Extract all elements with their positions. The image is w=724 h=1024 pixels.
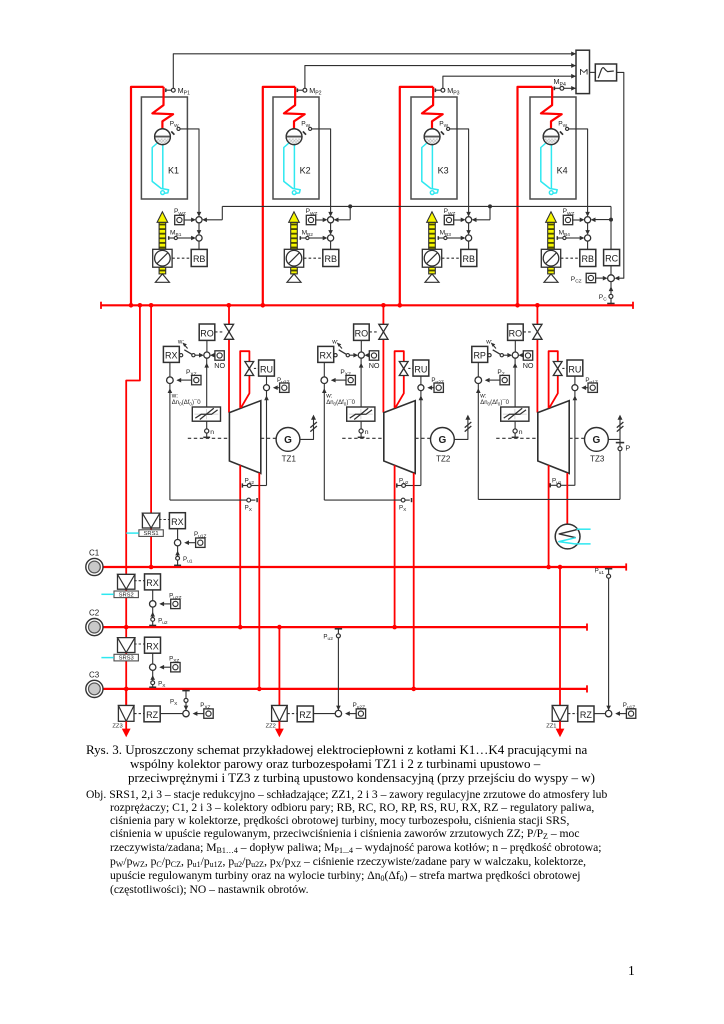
- fuel control valve of K2: [284, 249, 303, 267]
- cooling water stub of SRS3: [101, 657, 113, 659]
- relief valve ZZ1: [552, 706, 568, 722]
- regulator RZ of ZZ3: [144, 706, 160, 722]
- page number: [628, 963, 635, 979]
- svg-text:C1: C1: [89, 549, 100, 558]
- svg-text:RO: RO: [200, 328, 214, 338]
- wire: governor feedback into junction of TZ2: [322, 388, 327, 393]
- regulator RX of TZ1: [163, 346, 179, 362]
- sensor n (speed) of TZ3: [514, 421, 516, 429]
- node Mp2 measurement (steam output of K2): [296, 88, 298, 92]
- burner cone of K3: [425, 274, 439, 282]
- summing junction 2 of K1 (fuel flow): [198, 223, 200, 234]
- wire: MP2 signal to sum block: [305, 66, 576, 89]
- summing junction 1 of K3 (drum pressure control): [466, 212, 471, 217]
- sensor pX feedback of SRS3: [150, 675, 155, 680]
- regulator RX of TZ2: [318, 346, 334, 362]
- relief valve ZZ2: [272, 706, 288, 722]
- boiler K4 downcomer circulation loop: [541, 142, 557, 194]
- boiler K4 box: [530, 97, 576, 199]
- svg-text:n: n: [519, 429, 523, 436]
- node on bus x=131: [129, 303, 134, 308]
- caption Rys. 3: [86, 743, 646, 786]
- reduction-cooling station SRS2 valve: [118, 574, 135, 589]
- svg-text:SRS1: SRS1: [144, 531, 159, 537]
- wire: MP1 signal to sum block: [173, 54, 575, 89]
- wire: blowoff arrow of ZZ1 (red): [559, 721, 561, 731]
- wire: RO to governor valve of TZ3 (dashed): [523, 331, 532, 333]
- wire: Pcz to RC junction: [596, 277, 605, 279]
- svg-text:RX: RX: [146, 641, 159, 651]
- speed governor block of TZ3: [514, 358, 516, 407]
- node on C2 at x=240: [238, 625, 243, 630]
- wire: main steam line from bus to turbine TZ2: [382, 305, 384, 412]
- wire: main steam line from bus to turbine TZ1: [228, 305, 230, 412]
- burner cone of K2: [287, 274, 301, 282]
- wire: RC output riser: [610, 206, 612, 249]
- svg-text:RB: RB: [193, 254, 206, 264]
- wire: Pwz to junction of K2: [316, 219, 323, 221]
- regulator RX of SRS3: [145, 637, 161, 653]
- svg-text:n: n: [210, 429, 214, 436]
- node on C2 at x=395: [392, 625, 397, 630]
- sensor n (speed) of TZ1: [206, 421, 208, 429]
- pressure tap feedback of ZZ1: [608, 568, 610, 710]
- extraction control valve of TZ3: [553, 362, 562, 369]
- fuel control valve of K1: [153, 249, 172, 267]
- generator G of TZ1: [276, 428, 300, 452]
- sensor P (power) of TZ3: [619, 439, 621, 499]
- speed governor block of TZ2: [360, 358, 362, 407]
- arrow into sum block from K1: [571, 52, 576, 57]
- wire: RO to governor valve of TZ1 (dashed): [215, 331, 224, 333]
- wire: extraction loop of TZ2 (red): [395, 351, 404, 408]
- wire: exhaust line of TZ2: [413, 473, 415, 689]
- wire: RB output to fuel valve of K2 (dashed): [304, 257, 323, 259]
- boiler K1 superheater zigzag: [152, 87, 173, 129]
- wire: Pw signal of K4 to summing junction: [569, 129, 588, 213]
- regulator RU of TZ2 (extraction pressure): [413, 360, 429, 376]
- regulator RX of SRS2: [145, 574, 161, 590]
- filter block (transfer function): [595, 64, 616, 81]
- junction of SRS3: [152, 653, 154, 664]
- svg-text:Δn0(Δf0)¯0: Δn0(Δf0)¯0: [480, 399, 509, 406]
- turbine TZ2 body: [384, 401, 415, 474]
- node Mp3 measurement (steam output of K3): [434, 88, 436, 92]
- reduction-cooling station SRS1 valve: [142, 513, 159, 528]
- speed summing junction of TZ1: [204, 352, 210, 358]
- svg-text:K3: K3: [438, 165, 449, 175]
- wire: red steam riser of boiler K3 (bus to superheater): [400, 87, 433, 305]
- wire: MB3 to junction 2 of K3: [447, 237, 461, 239]
- wire: RX to SRS3 valve (dashed): [134, 643, 144, 645]
- wire: NO junction to RO of TZ1: [206, 340, 208, 352]
- summing junction 2 of K3 (fuel flow): [468, 223, 470, 234]
- main steam collector bus (red): [101, 304, 633, 306]
- fuel flow arrow of K2: [291, 222, 298, 249]
- cooling water stub of SRS2: [101, 593, 113, 595]
- svg-text:C2: C2: [89, 609, 100, 618]
- wire: Pwz to junction of K3: [454, 219, 461, 221]
- pressure tap feedback of ZZ3: [185, 690, 187, 711]
- sensor px of TZ2 (backpressure): [324, 499, 401, 501]
- wire: blowoff arrow of ZZ2 (red): [278, 721, 280, 731]
- summing junction 2 of K2 (fuel flow): [330, 223, 332, 234]
- wire: RB output to fuel valve of K4 (dashed): [561, 257, 580, 259]
- wire: extraction line below turbine TZ3: [548, 465, 550, 567]
- wire: RX to SRS2 valve (dashed): [134, 580, 144, 582]
- svg-text:w:: w:: [325, 393, 332, 400]
- wire: pu2 feedback of TZ2: [419, 395, 424, 400]
- svg-text:TZ3: TZ3: [590, 455, 605, 464]
- sum block (steam output of K1..K4): [576, 50, 590, 93]
- regulator RO of TZ2 (speed): [354, 324, 370, 340]
- collector C3 header (red): [103, 688, 587, 690]
- svg-text:TZ2: TZ2: [436, 455, 451, 464]
- boiler K2 superheater zigzag: [284, 87, 305, 129]
- summing junction 2 of K4 (fuel flow): [587, 223, 589, 234]
- svg-text:RX: RX: [319, 351, 332, 361]
- svg-text:RU: RU: [260, 364, 273, 374]
- wire: Pw signal of K3 to summing junction: [450, 129, 469, 213]
- junction of ZZ2: [314, 713, 336, 715]
- wire: sum block to filter block: [590, 71, 596, 73]
- node on C3 at x=259: [257, 687, 262, 692]
- svg-text:G: G: [284, 435, 292, 446]
- wire: MP4 signal to sum block: [564, 87, 576, 89]
- wire: RB output to fuel valve of K3 (dashed): [442, 257, 461, 259]
- svg-text:RX: RX: [146, 578, 159, 588]
- svg-text:TZ1: TZ1: [282, 455, 297, 464]
- boiler K2 downcomer circulation loop: [284, 142, 300, 194]
- wire: blowoff arrow of ZZ3 (red): [125, 721, 127, 731]
- legend Obj.: [86, 788, 706, 896]
- svg-text:RB: RB: [463, 254, 476, 264]
- wire: relief pipe of ZZ1 (red): [559, 567, 561, 706]
- junction of ZZ1: [594, 713, 605, 715]
- turbine TZ1 body: [229, 401, 260, 474]
- speed summing junction of TZ3: [512, 352, 518, 358]
- collector C1 header (red): [103, 566, 626, 568]
- condenser of TZ3: [555, 524, 580, 549]
- svg-text:RC: RC: [605, 254, 618, 264]
- wire: RC correction line to all boiler junctions: [222, 205, 611, 207]
- svg-text:RZ: RZ: [580, 710, 592, 720]
- node Mp1 measurement (steam output of K1): [165, 88, 167, 92]
- setpoint junction of TZ3: [475, 377, 482, 384]
- wire: red pipe from bus to SRS2/SRS3/ZZ3 (with jog): [126, 305, 140, 705]
- svg-text:Δn0(Δf0)¯0: Δn0(Δf0)¯0: [326, 399, 355, 406]
- wire: filter output to RC junction: [617, 72, 624, 278]
- svg-text:RX: RX: [171, 517, 184, 527]
- fuel control valve of K3: [422, 249, 441, 267]
- node on C3 at x=414: [411, 687, 416, 692]
- governor valve of TZ1: [224, 324, 233, 332]
- svg-text:RZ: RZ: [146, 710, 158, 720]
- wire: RU to extraction valve of TZ2 (dashed): [408, 367, 413, 369]
- wire: main steam line from bus to turbine TZ3: [536, 305, 538, 412]
- svg-text:RU: RU: [414, 364, 427, 374]
- fuel flow arrow of K1: [159, 222, 166, 249]
- generator G of TZ3: [585, 428, 609, 452]
- arrow into sum block from K3: [571, 74, 576, 79]
- wire: RX to SRS1 valve (dashed): [159, 519, 169, 521]
- svg-text:RU: RU: [568, 364, 581, 374]
- collector C2 header (red): [103, 626, 587, 628]
- fuel control valve of K4: [541, 249, 560, 267]
- extraction pressure junction of TZ3: [574, 376, 576, 384]
- wire: MB4 to junction 2 of K4: [566, 237, 580, 239]
- wire: power feedback of TZ3: [478, 498, 620, 500]
- svg-text:ZZ3: ZZ3: [112, 724, 122, 730]
- governor valve of TZ2: [379, 324, 388, 332]
- wire: exhaust line of TZ3: [566, 473, 568, 524]
- collector C3 symbol: [86, 680, 103, 697]
- setpoint junction of TZ2: [321, 377, 328, 384]
- svg-text:SRS3: SRS3: [119, 656, 134, 662]
- node RC output tee: [609, 218, 613, 222]
- svg-text:RB: RB: [582, 254, 595, 264]
- extraction pressure junction of TZ1: [266, 376, 268, 384]
- wire: RZ to ZZ3 valve (dashed): [134, 713, 144, 715]
- sensor pu1 feedback of SRS1: [175, 551, 180, 556]
- node on C3 at x=126: [124, 687, 129, 692]
- svg-text:SRS2: SRS2: [119, 592, 134, 598]
- wire: Pw signal of K1 to summing junction: [180, 129, 199, 213]
- node on C2 at x=279: [277, 625, 282, 630]
- wire: extraction line below turbine TZ2: [394, 465, 396, 627]
- sensor n (speed) of TZ2: [360, 421, 362, 429]
- wire: MB1 to junction 2 of K1: [177, 237, 191, 239]
- RC summing junction: [610, 266, 612, 275]
- wire: RU to extraction valve of TZ1 (dashed): [254, 367, 259, 369]
- arrow into sum block from K4: [571, 86, 576, 91]
- svg-text:G: G: [593, 435, 601, 446]
- summing junction 1 of K1 (drum pressure control): [197, 212, 202, 217]
- node on C1 at x=549: [546, 565, 551, 570]
- wire: extraction line below turbine TZ1: [239, 465, 241, 627]
- wire: RB output to fuel valve of K1 (dashed): [172, 257, 191, 259]
- wire: Pwz to junction of K4: [573, 219, 580, 221]
- speed summing junction of TZ2: [358, 352, 364, 358]
- regulator RZ of ZZ1: [578, 706, 594, 722]
- svg-text:ZZ2: ZZ2: [266, 724, 276, 730]
- node on C1 at x=560: [558, 565, 563, 570]
- power output arrow of TZ1: [300, 419, 314, 439]
- wire: NO junction to RO of TZ2: [360, 340, 362, 352]
- setpoint junction of TZ1: [167, 377, 174, 384]
- wire: extraction loop of TZ1 (red): [240, 351, 249, 408]
- power output arrow of TZ2: [454, 419, 468, 439]
- wire: pu1 feedback of TZ3: [573, 395, 578, 400]
- cooling water stub of SRS1: [126, 532, 138, 534]
- collector C2 symbol: [86, 619, 103, 636]
- svg-text:RO: RO: [509, 328, 523, 338]
- node on bus x=537: [535, 303, 540, 308]
- svg-text:P: P: [625, 444, 630, 453]
- svg-text:RB: RB: [325, 254, 338, 264]
- node on bus x=383: [381, 303, 386, 308]
- svg-text:ZZ1: ZZ1: [546, 724, 556, 730]
- power output arrow of TZ3: [608, 419, 620, 439]
- svg-text:w:: w:: [479, 393, 486, 400]
- boiler K2 box: [273, 97, 319, 199]
- wire: pu2 feedback of TZ1: [264, 395, 269, 400]
- svg-text:Δn0(Δf0)¯0: Δn0(Δf0)¯0: [172, 399, 201, 406]
- pressure tap feedback of ZZ2: [337, 628, 339, 710]
- regulator RB of K2 (fuel regulator): [330, 241, 332, 249]
- wire: RO to governor valve of TZ2 (dashed): [369, 331, 378, 333]
- node on bus x=140: [138, 303, 143, 308]
- wire: Pwz to junction of K1: [184, 219, 191, 221]
- turbine TZ3 body: [538, 401, 569, 474]
- boiler K4 superheater zigzag: [541, 87, 562, 129]
- arrow into sum block from K2: [571, 63, 576, 68]
- sensor px of TZ1 (backpressure): [170, 499, 247, 501]
- burner cone of K1: [155, 274, 169, 282]
- node on RC line above K2: [348, 204, 352, 208]
- regulator RX of SRS1: [169, 513, 185, 529]
- junction of ZZ3: [160, 713, 182, 715]
- svg-text:K2: K2: [300, 165, 311, 175]
- wire: RZ to ZZ1 valve (dashed): [568, 713, 578, 715]
- reduction-cooling station SRS3 valve: [118, 638, 135, 653]
- regulator RB of K4 (fuel regulator): [587, 241, 589, 249]
- wire: red steam riser of boiler K2 (bus to superheater): [263, 87, 295, 305]
- svg-text:K1: K1: [168, 165, 179, 175]
- wire: MB2 to junction 2 of K2: [309, 237, 323, 239]
- svg-text:NO: NO: [214, 361, 225, 370]
- wire: MP3 signal to sum block: [443, 76, 576, 88]
- svg-text:RZ: RZ: [299, 710, 311, 720]
- regulator RB of K1 (fuel regulator): [198, 241, 200, 249]
- wire: RZ to ZZ2 valve (dashed): [287, 713, 297, 715]
- node on bus x=229: [227, 303, 232, 308]
- wire: red pipe from bus to SRS1: [150, 305, 152, 567]
- node Mp4 measurement (steam output of K4): [553, 87, 555, 91]
- wire: governor feedback into junction of TZ1: [168, 388, 173, 393]
- summing junction 1 of K2 (drum pressure control): [328, 212, 333, 217]
- burner cone of K4: [544, 274, 558, 282]
- wire: exhaust line of TZ1: [258, 473, 260, 689]
- svg-text:NO: NO: [369, 361, 380, 370]
- speed setter NO of TZ3: [523, 351, 532, 360]
- wire: governor feedback into junction of TZ3: [476, 388, 481, 393]
- wire: relief pipe of ZZ3 (red): [125, 689, 127, 706]
- svg-text:NO: NO: [523, 361, 534, 370]
- node on bus x=518: [515, 303, 520, 308]
- wire: extraction loop of TZ3 (red): [549, 351, 558, 408]
- regulator RU of TZ3 (extraction pressure): [567, 360, 583, 376]
- shaft line of TZ3 (dashed): [496, 437, 537, 439]
- junction of SRS2: [152, 590, 154, 601]
- regulator RC (collector pressure): [604, 249, 620, 265]
- regulator RP of TZ3: [472, 346, 488, 362]
- shaft line of TZ2 (dashed): [342, 437, 383, 439]
- wire: red steam riser of boiler K4 (bus to superheater): [518, 87, 553, 305]
- speed governor block of TZ1: [206, 358, 208, 407]
- svg-text:G: G: [439, 435, 447, 446]
- svg-text:w:: w:: [171, 393, 178, 400]
- regulator RU of TZ1 (extraction pressure): [259, 360, 275, 376]
- boiler K3 downcomer circulation loop: [422, 142, 438, 194]
- wire: relief pipe of ZZ2 (red): [278, 627, 280, 705]
- shaft line of TZ1 (dashed): [188, 437, 229, 439]
- generator G of TZ2: [431, 428, 455, 452]
- boiler K1 downcomer circulation loop: [152, 142, 168, 194]
- svg-text:Σ: Σ: [577, 68, 589, 75]
- boiler K3 box: [411, 97, 457, 199]
- node on C2 at x=126: [124, 625, 129, 630]
- wire: RU to extraction valve of TZ3 (dashed): [562, 367, 567, 369]
- speed setter NO of TZ1: [215, 351, 224, 360]
- svg-text:C3: C3: [89, 670, 100, 679]
- regulator RB of K3 (fuel regulator): [468, 241, 470, 249]
- node on bus x=263: [261, 303, 266, 308]
- svg-text:RP: RP: [473, 351, 486, 361]
- cooling water lines of condenser: [577, 528, 591, 530]
- svg-text:RO: RO: [355, 328, 369, 338]
- node on C1 at x=151: [149, 565, 154, 570]
- summing junction 1 of K4 (drum pressure control): [585, 212, 590, 217]
- svg-text:n: n: [365, 429, 369, 436]
- extraction control valve of TZ1: [245, 362, 254, 369]
- regulator RZ of ZZ2: [297, 706, 313, 722]
- boiler K1 box: [141, 97, 187, 199]
- sensor pu2 feedback of SRS2: [150, 612, 155, 617]
- relief valve ZZ3: [118, 706, 134, 722]
- wire: NO junction to RO of TZ3: [514, 340, 516, 352]
- node on bus x=151: [149, 303, 154, 308]
- fuel flow arrow of K3: [429, 222, 436, 249]
- svg-text:RX: RX: [165, 351, 178, 361]
- speed setter NO of TZ2: [369, 351, 378, 360]
- svg-text:K4: K4: [557, 165, 568, 175]
- regulator RO of TZ1 (speed): [199, 324, 215, 340]
- node on RC line above K3: [488, 204, 492, 208]
- wire: Pw signal of K2 to summing junction: [312, 129, 331, 213]
- fuel flow arrow of K4: [548, 222, 555, 249]
- extraction control valve of TZ2: [399, 362, 408, 369]
- regulator RO of TZ3 (speed): [508, 324, 524, 340]
- wire: red steam riser of boiler K1 (bus to superheater): [131, 87, 164, 305]
- boiler K3 superheater zigzag: [422, 87, 443, 129]
- collector C1 symbol: [86, 558, 103, 575]
- governor valve of TZ3: [533, 324, 542, 332]
- node on bus x=400: [398, 303, 403, 308]
- extraction pressure junction of TZ2: [420, 376, 422, 384]
- junction of SRS1: [177, 529, 179, 540]
